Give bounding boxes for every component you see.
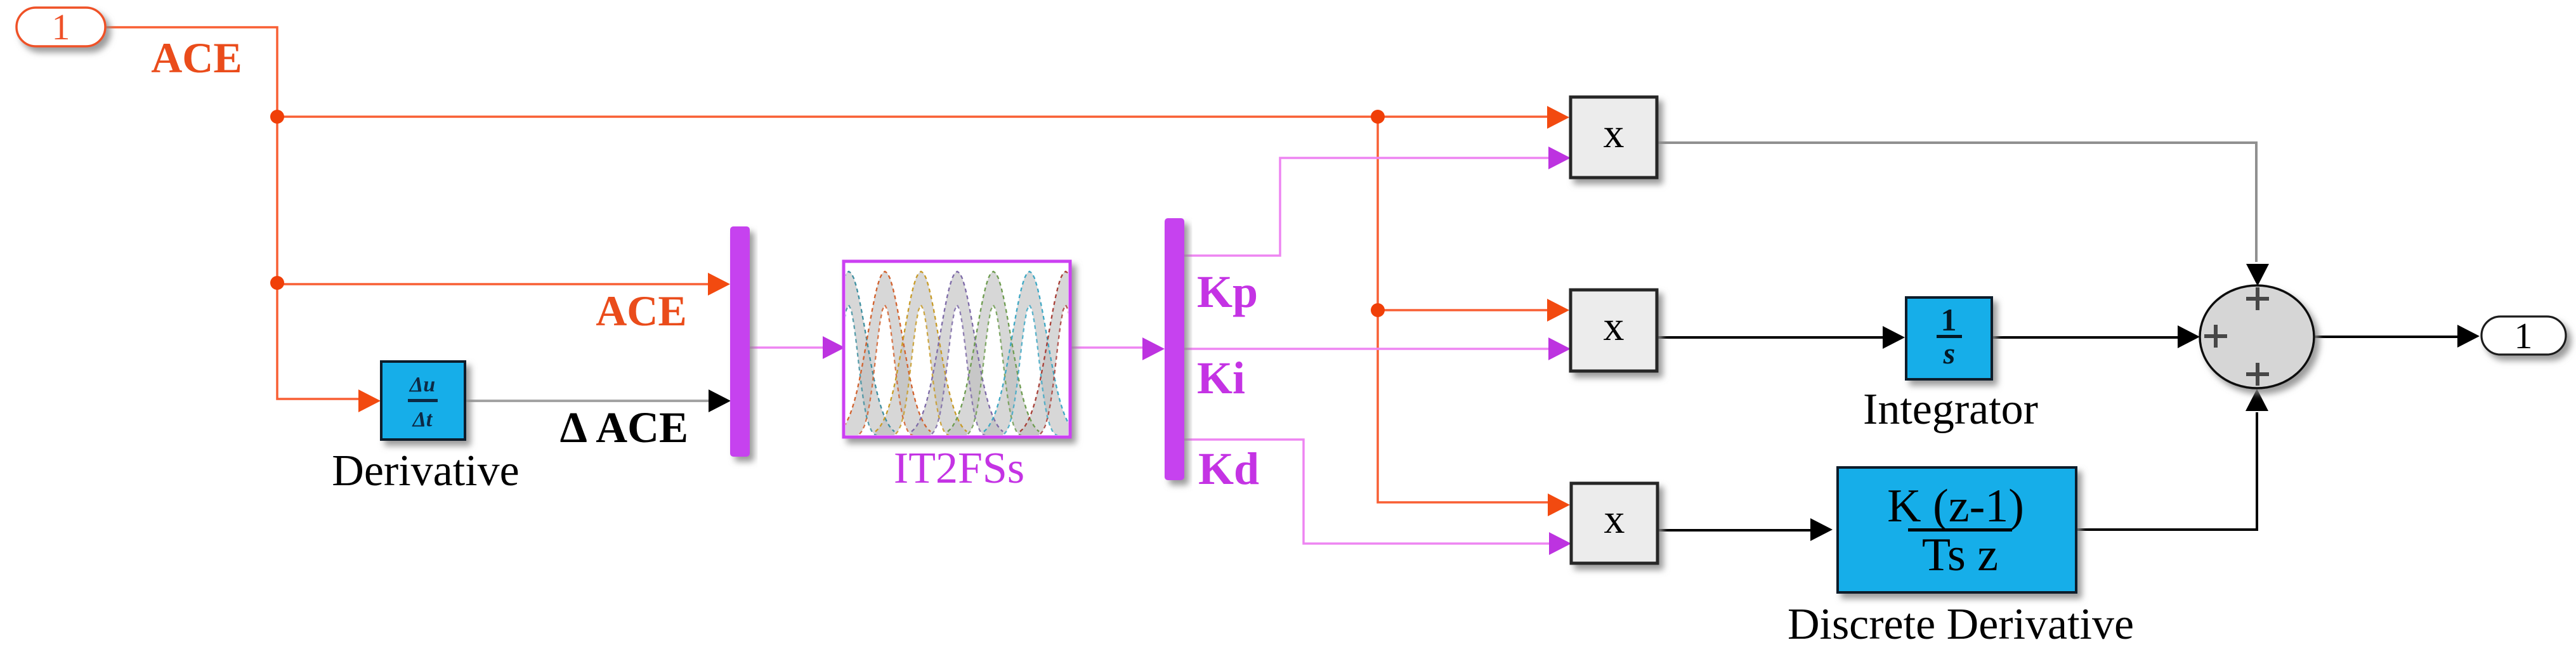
svg-text:1: 1 [2514,315,2533,356]
svg-text:K (z-1): K (z-1) [1887,480,2024,532]
svg-text:Ki: Ki [1197,353,1245,403]
svg-text:Discrete Derivative: Discrete Derivative [1788,600,2134,649]
svg-text:IT2FSs: IT2FSs [894,444,1024,493]
svg-text:s: s [1943,337,1956,370]
svg-text:Δt: Δt [412,408,433,431]
svg-text:x: x [1604,110,1625,157]
svg-text:Δu: Δu [409,373,435,396]
svg-text:Ts z: Ts z [1922,529,1998,581]
svg-text:Derivative: Derivative [332,447,519,495]
svg-text:1: 1 [52,6,70,48]
svg-text:1: 1 [1941,302,1957,337]
svg-text:Integrator: Integrator [1863,385,2038,434]
svg-text:Kp: Kp [1197,266,1258,317]
svg-text:ACE: ACE [596,287,687,335]
svg-text:Kd: Kd [1198,443,1259,494]
svg-text:x: x [1604,496,1625,542]
svg-text:x: x [1604,303,1625,349]
svg-text:Δ ACE: Δ ACE [560,403,688,452]
svg-text:ACE: ACE [151,34,242,82]
